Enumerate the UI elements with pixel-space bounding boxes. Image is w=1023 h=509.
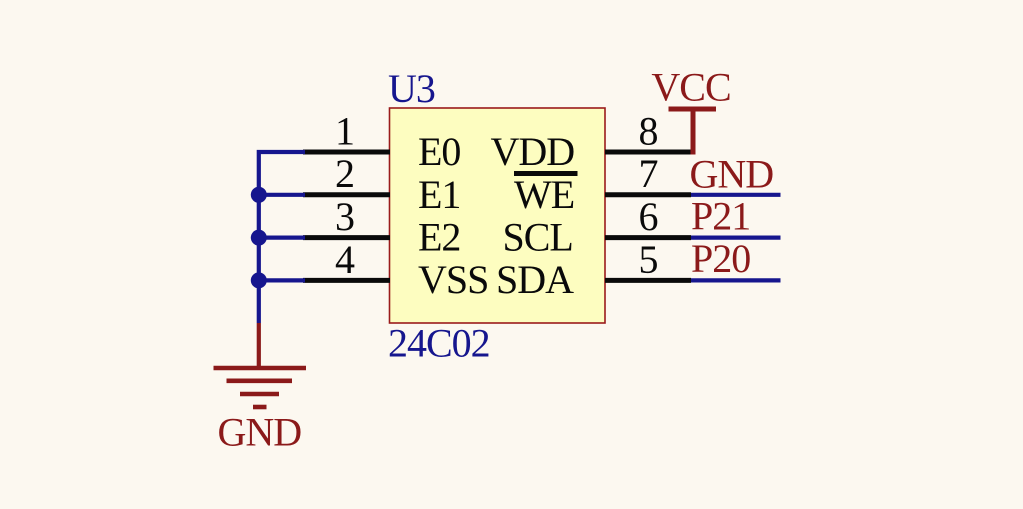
wire: net GND from pin 7 <box>691 193 781 197</box>
wire: net P20 from pin 5 <box>691 278 781 282</box>
svg-text:8: 8 <box>639 108 658 153</box>
svg-text:VSS: VSS <box>418 257 488 302</box>
VCC power port stem <box>691 109 696 155</box>
svg-text:U3: U3 <box>388 66 435 111</box>
pin 3 (E2) <box>303 235 390 240</box>
ground power port stem <box>257 323 261 368</box>
svg-text:WE: WE <box>514 172 574 217</box>
ground symbol bar 1 <box>214 366 307 371</box>
pin 4 (VSS) <box>303 278 390 283</box>
wire: net P21 from pin 6 <box>691 236 781 240</box>
IC U3 body <box>390 108 606 323</box>
svg-text:E0: E0 <box>418 129 460 174</box>
svg-text:5: 5 <box>639 237 658 282</box>
junction at pin 3 branch <box>251 230 267 246</box>
wire: branch to pin 3 <box>259 236 305 240</box>
svg-text:P20: P20 <box>691 236 750 281</box>
pin 2 (E1) <box>303 192 390 197</box>
svg-text:SCL: SCL <box>503 214 573 259</box>
svg-text:24C02: 24C02 <box>388 321 490 366</box>
svg-text:4: 4 <box>335 237 355 282</box>
svg-text:P21: P21 <box>691 194 750 239</box>
svg-text:SDA: SDA <box>496 257 574 302</box>
svg-text:VCC: VCC <box>651 65 730 110</box>
ground symbol bar 4 <box>253 405 267 410</box>
svg-text:E2: E2 <box>418 214 460 259</box>
pin 6 (SCL) <box>605 235 691 240</box>
wire: left bus vertical + branch to pin 1 <box>259 152 305 323</box>
pin 5 (SDA) <box>605 278 691 283</box>
pin 1 (E0) <box>303 150 390 155</box>
wire: branch to pin 2 <box>259 193 305 197</box>
junction at pin 4 branch <box>251 272 267 288</box>
svg-text:6: 6 <box>639 194 658 239</box>
svg-text:GND: GND <box>690 152 774 197</box>
svg-text:GND: GND <box>218 410 302 455</box>
ground symbol bar 2 <box>227 378 293 383</box>
VCC bar symbol <box>669 107 717 112</box>
pin 7 (WE) <box>605 192 691 197</box>
svg-text:1: 1 <box>335 108 354 153</box>
ground symbol bar 3 <box>240 392 279 397</box>
svg-text:2: 2 <box>335 151 354 196</box>
svg-text:3: 3 <box>335 194 354 239</box>
pin 8 (VDD) <box>605 150 691 155</box>
wire: branch to pin 4 <box>259 278 305 282</box>
WE overline <box>514 171 578 176</box>
junction at pin 2 branch <box>251 187 267 203</box>
svg-text:7: 7 <box>639 151 658 196</box>
svg-text:E1: E1 <box>418 172 460 217</box>
svg-text:VDD: VDD <box>491 129 575 174</box>
